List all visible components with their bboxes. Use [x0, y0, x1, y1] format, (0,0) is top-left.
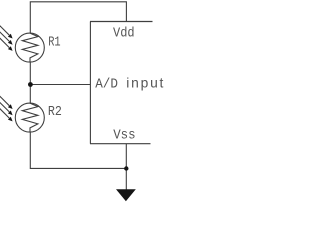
pin line Vdd — [90, 21, 153, 23]
wire: R1 top up, across Vdd rail, down to Vdd pin — [30, 2, 126, 34]
wire: R2 bottom, across bottom rail to ground node — [30, 132, 126, 168]
wire: Vss pin down to ground — [125, 144, 127, 190]
wire: R1 bottom to R2 top — [29, 62, 31, 104]
photoresistor R1 — [0, 26, 44, 63]
svg-text:input: input — [126, 75, 163, 90]
pin line Vss — [90, 143, 151, 145]
junction node A — [28, 82, 33, 87]
svg-text:A/D: A/D — [95, 76, 118, 92]
box left edge (A/D converter block) — [89, 22, 91, 144]
svg-text:R1: R1 — [48, 36, 60, 51]
ground symbol — [116, 189, 136, 201]
wire: node A to A/D input pin — [30, 84, 90, 86]
svg-text:Vss: Vss — [113, 129, 135, 144]
svg-text:R2: R2 — [48, 105, 62, 120]
photoresistor R2 — [0, 96, 44, 132]
junction ground node — [124, 166, 128, 170]
svg-text:Vdd: Vdd — [113, 26, 135, 42]
